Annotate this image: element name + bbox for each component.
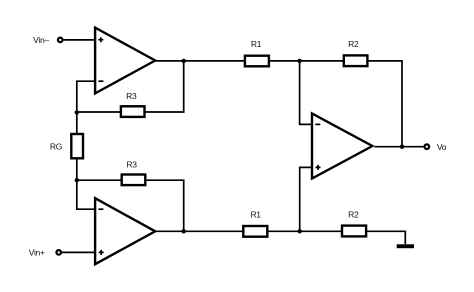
node B [75, 178, 79, 182]
svg-text:R1: R1 [250, 210, 261, 220]
wire node A to R3a [77, 111, 121, 113]
wire U2 output to R1b [155, 230, 243, 232]
wire R1b to R2b [267, 230, 342, 232]
svg-text:R1: R1 [251, 39, 262, 49]
wire R2b to ground [366, 231, 405, 244]
svg-text:Vin+: Vin+ [29, 248, 45, 258]
wire Vin- to U1 + input [63, 39, 95, 41]
wire node to U3 + input [300, 167, 312, 231]
terminal Vo [425, 144, 430, 149]
wire R1a to R2a [269, 60, 344, 62]
wire U1 output to R1a [155, 60, 245, 62]
wire node A to RG [76, 112, 78, 134]
op-amp U1 [95, 28, 155, 94]
node Vo junction [400, 145, 404, 149]
wire RG to node B [76, 158, 78, 180]
resistor RG [71, 134, 83, 158]
wire R3a to U1 output net [145, 61, 184, 112]
ground [397, 244, 414, 248]
resistor R1 (upper) [245, 56, 269, 67]
svg-text:RG: RG [50, 142, 62, 152]
resistor R2 (lower) [342, 226, 366, 237]
wire U3 output to Vo [375, 146, 424, 148]
resistor R3 (lower) [122, 175, 146, 186]
resistor R2 (upper) [344, 55, 368, 66]
wire Vin+ to U2 + input [62, 251, 95, 253]
svg-text:Vin–: Vin– [33, 35, 49, 45]
wire node to U3 - input [300, 61, 312, 125]
op-amp U3 [312, 114, 372, 179]
junction U2 output [182, 229, 186, 233]
resistor R3 (upper) [121, 106, 145, 117]
resistor R1 (lower) [243, 226, 267, 237]
op-amp U2 [95, 198, 155, 264]
wire node B to R3b [77, 179, 122, 181]
terminal Vin- [58, 38, 63, 43]
svg-text:R2: R2 [348, 210, 359, 220]
junction R1a/R2a node [297, 59, 301, 63]
svg-text:Vo: Vo [437, 142, 447, 152]
svg-text:R2: R2 [348, 39, 359, 49]
wire R2a to Vo node [367, 61, 402, 147]
node A [75, 110, 79, 114]
terminal Vin+ [56, 250, 61, 255]
svg-text:R3: R3 [126, 159, 137, 169]
svg-text:R3: R3 [126, 91, 137, 101]
junction R1b/R2b node [298, 229, 302, 233]
wire R3b to U2 output net [145, 180, 183, 231]
wire U2 - input to node B [77, 180, 95, 209]
junction U1 output [182, 59, 186, 63]
wire U1 - input to node A [77, 81, 95, 112]
